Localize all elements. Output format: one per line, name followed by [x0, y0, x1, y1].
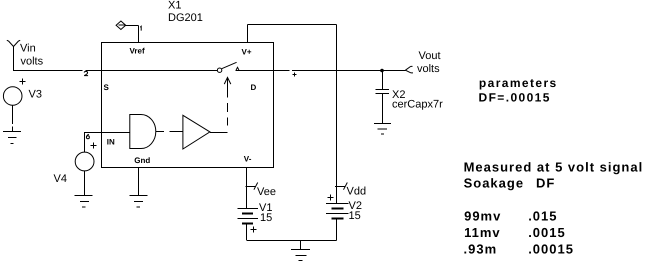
svg-text:.015: .015 — [528, 209, 557, 224]
parameter diamond symbol — [116, 21, 126, 30]
wire V3 to ground — [12, 105, 14, 131]
svg-text:11mv: 11mv — [464, 225, 501, 240]
switch throw contact — [236, 67, 239, 70]
ground under Gnd pin — [130, 196, 148, 208]
wire V4 to IN pin — [85, 132, 102, 152]
V3 plus sign — [20, 79, 26, 85]
input port Vin — [13, 47, 15, 71]
net flag Vee — [245, 183, 257, 190]
battery V2 — [326, 204, 349, 219]
voltage source V3 — [3, 87, 22, 106]
wire V4 to ground — [84, 171, 86, 195]
triangle buffer — [183, 115, 210, 149]
svg-text:.93m: .93m — [464, 242, 498, 257]
svg-text:.00015: .00015 — [528, 242, 574, 257]
svg-text:15: 15 — [260, 212, 272, 224]
output port Vout — [405, 66, 413, 73]
wire gate to triangle — [156, 131, 183, 133]
wire V2 to bottom rail — [336, 219, 338, 241]
svg-text:volts: volts — [417, 63, 440, 75]
wire V- to battery V1 — [246, 168, 248, 209]
pin number 2 — [84, 71, 88, 75]
svg-text:.0015: .0015 — [528, 225, 566, 240]
switch lever — [222, 62, 237, 68]
svg-text:Vee: Vee — [257, 186, 276, 198]
svg-text:Gnd: Gnd — [134, 156, 150, 165]
svg-text:Vdd: Vdd — [347, 186, 367, 198]
svg-text:V-: V- — [244, 155, 252, 164]
V4 plus sign — [90, 143, 96, 149]
junction dot X2 — [380, 69, 384, 73]
pin number 1 — [140, 26, 141, 30]
svg-text:parameters: parameters — [479, 76, 558, 90]
ground under X2 — [374, 124, 391, 135]
voltage source V4 — [75, 152, 94, 171]
wire X2 to ground — [382, 94, 384, 124]
V2 plus sign — [328, 195, 334, 201]
svg-text:V4: V4 — [54, 173, 67, 185]
svg-text:DF=.00015: DF=.00015 — [479, 91, 551, 105]
ground under V4 — [75, 196, 93, 208]
IC X1 box — [102, 43, 274, 168]
svg-text:DF: DF — [536, 176, 555, 191]
svg-text:Vref: Vref — [130, 46, 145, 55]
svg-text:volts: volts — [21, 56, 44, 68]
svg-text:Vout: Vout — [419, 50, 441, 62]
svg-text:15: 15 — [349, 210, 361, 222]
svg-text:V3: V3 — [29, 88, 42, 100]
wire rail to X2 — [382, 71, 384, 90]
svg-text:X1: X1 — [168, 0, 181, 12]
svg-text:IN: IN — [107, 138, 115, 147]
dashed control line — [227, 79, 229, 126]
svg-text:99mv: 99mv — [464, 209, 501, 224]
pin label Gnd wire to ground — [138, 168, 140, 196]
capacitor X2 — [375, 90, 389, 94]
control arrow head — [224, 77, 231, 84]
svg-text:Measured at 5 volt signal: Measured at 5 volt signal — [464, 160, 644, 175]
wire Vdd vertical — [336, 25, 338, 204]
svg-text:V+: V+ — [242, 47, 252, 56]
wire V1 to bottom rail — [246, 224, 248, 240]
ground bottom center — [291, 241, 310, 261]
svg-text:DG201: DG201 — [168, 12, 203, 24]
wire V+ pin to top rail — [248, 25, 337, 43]
wire triangle to dashed corner — [210, 132, 228, 134]
svg-text:Soakage: Soakage — [464, 176, 524, 191]
svg-text:Vin: Vin — [20, 42, 36, 54]
wire IN to AND gate — [102, 132, 130, 134]
net flag Vdd — [335, 183, 347, 190]
wire diamond to Vref pin — [126, 26, 139, 43]
bottom rail wire — [247, 240, 337, 242]
AND gate buffer — [130, 115, 156, 149]
pin number 4 — [293, 73, 297, 77]
wire main rail D side — [236, 70, 406, 72]
wire main rail S side — [13, 70, 218, 72]
battery V1 — [238, 209, 258, 224]
switch pole circle — [217, 68, 221, 72]
svg-text:S: S — [104, 83, 110, 92]
pin number 6 — [86, 134, 89, 139]
svg-text:D: D — [251, 83, 257, 92]
svg-text:cerCapx7r: cerCapx7r — [392, 99, 443, 111]
V1 plus sign — [251, 227, 257, 233]
ground under V3 — [3, 132, 21, 144]
